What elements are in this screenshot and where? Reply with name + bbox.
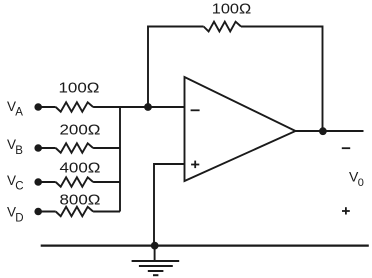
svg-text:A: A [15, 107, 23, 119]
wire feedback top-left segment [148, 27, 204, 108]
wire noninverting input [154, 164, 185, 246]
wire input VA left lead [38, 106, 56, 108]
svg-text:100Ω: 100Ω [59, 80, 100, 97]
node terminal VC [34, 178, 42, 186]
ground symbol bar 1 [132, 260, 180, 262]
junction ground node [151, 242, 159, 250]
output polarity minus sign [342, 147, 350, 149]
resistor 800Ω input D [56, 207, 93, 216]
wire input VC left lead [38, 181, 56, 183]
ground symbol bar 4 [153, 274, 158, 276]
svg-text:C: C [15, 180, 23, 192]
svg-text:0: 0 [358, 177, 364, 189]
wire VB to bus [93, 147, 120, 149]
wire feedback top-right segment [241, 27, 323, 132]
resistor 200Ω input B [56, 143, 93, 152]
wire input VB left lead [38, 147, 56, 149]
wire input VD left lead [38, 211, 56, 213]
svg-text:800Ω: 800Ω [60, 192, 101, 209]
wire input bus vertical [119, 107, 121, 212]
resistor 400Ω input C [56, 177, 93, 186]
svg-text:400Ω: 400Ω [60, 160, 101, 177]
svg-text:200Ω: 200Ω [60, 122, 101, 139]
wire output [296, 130, 364, 132]
svg-text:100Ω: 100Ω [212, 1, 252, 18]
node terminal VA [34, 103, 42, 111]
wire VA to inverting input [93, 106, 184, 108]
ground symbol bar 2 [139, 265, 173, 267]
op-amp noninverting input plus sign [191, 164, 199, 166]
node terminal VB [34, 144, 42, 152]
node terminal VD [34, 208, 42, 216]
junction inverting input node [144, 103, 152, 111]
junction output node [319, 127, 327, 135]
wire ground bus [41, 245, 369, 247]
output polarity plus sign [342, 210, 350, 212]
wire ground stem [154, 246, 156, 262]
resistor 100Ω feedback [204, 22, 241, 32]
ground symbol bar 3 [148, 270, 164, 272]
svg-text:B: B [15, 145, 23, 157]
wire VD to bus [93, 211, 120, 213]
resistor 100Ω input A [56, 102, 93, 111]
svg-text:D: D [15, 212, 23, 224]
op-amp inverting input minus sign [191, 109, 200, 111]
op-amp U1 triangle [185, 77, 296, 181]
wire VC to bus [93, 181, 120, 183]
